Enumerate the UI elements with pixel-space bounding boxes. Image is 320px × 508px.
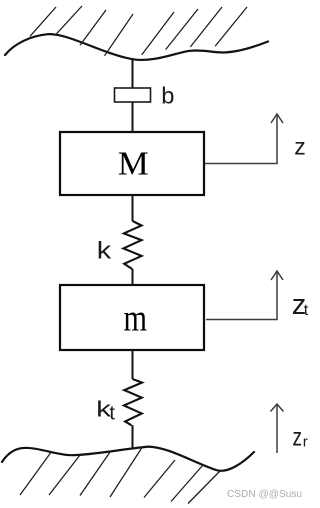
mass m box	[60, 285, 204, 350]
wire mass M to spring k	[132, 195, 134, 221]
svg-text:z: z	[294, 134, 306, 160]
arrow z (wire from M and vertical arrow)	[205, 114, 283, 164]
road hatch lines	[20, 448, 220, 504]
road ground wave	[2, 447, 254, 471]
damper b box	[115, 88, 151, 102]
wire mass m to spring kt	[132, 350, 134, 379]
svg-text:m: m	[124, 298, 148, 340]
mass M box	[60, 132, 204, 195]
svg-text:z: z	[293, 422, 303, 452]
svg-text:b: b	[161, 83, 174, 109]
wire ceiling to damper	[132, 58, 134, 88]
svg-text:r: r	[303, 434, 308, 451]
svg-text:CSDN @@Susu: CSDN @@Susu	[227, 488, 302, 500]
svg-text:k: k	[97, 237, 112, 264]
wire damper to mass M	[132, 102, 134, 132]
ceiling hatch lines	[30, 6, 247, 56]
spring k	[123, 221, 141, 269]
spring kt	[124, 379, 142, 425]
arrow zr (road input vertical arrow)	[271, 404, 284, 453]
svg-text:t: t	[109, 403, 115, 425]
arrow zt (wire from m and vertical arrow)	[206, 271, 283, 320]
wire spring k to mass m	[132, 269, 134, 285]
svg-text:t: t	[304, 302, 309, 319]
svg-text:M: M	[118, 145, 149, 183]
wire spring kt to road	[132, 425, 134, 449]
ceiling fixed support wave	[5, 34, 268, 60]
